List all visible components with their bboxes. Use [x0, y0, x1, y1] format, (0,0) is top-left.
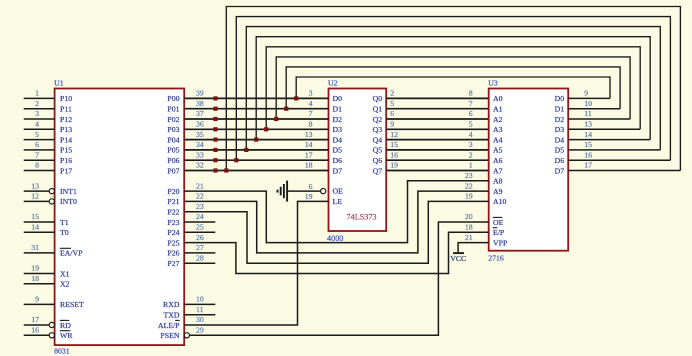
svg-text:P13: P13 [60, 125, 72, 134]
svg-text:35: 35 [196, 130, 204, 139]
svg-text:A8: A8 [493, 177, 503, 186]
svg-text:Q5: Q5 [373, 146, 383, 155]
svg-text:16: 16 [31, 326, 39, 335]
svg-text:8: 8 [309, 120, 313, 129]
svg-text:2716: 2716 [488, 253, 504, 262]
svg-text:16: 16 [390, 150, 398, 159]
svg-text:U3: U3 [488, 79, 498, 88]
svg-text:7: 7 [469, 99, 473, 108]
svg-text:29: 29 [196, 326, 204, 335]
svg-text:INT1: INT1 [60, 187, 77, 196]
svg-text:9: 9 [35, 295, 39, 304]
svg-text:2: 2 [390, 89, 394, 98]
svg-text:P02: P02 [167, 115, 179, 124]
svg-text:8031: 8031 [54, 347, 70, 356]
svg-text:Q2: Q2 [373, 115, 383, 124]
svg-text:20: 20 [465, 212, 473, 221]
svg-text:EA/VP: EA/VP [60, 249, 83, 258]
svg-text:P05: P05 [167, 146, 179, 155]
svg-text:39: 39 [196, 89, 204, 98]
svg-text:P03: P03 [167, 125, 179, 134]
svg-text:P25: P25 [167, 238, 179, 247]
svg-text:5: 5 [35, 130, 39, 139]
svg-text:OE: OE [333, 187, 344, 196]
svg-text:D5: D5 [333, 146, 343, 155]
svg-text:P15: P15 [60, 146, 72, 155]
svg-text:D6: D6 [555, 156, 565, 165]
svg-text:23: 23 [465, 171, 473, 180]
svg-text:18: 18 [305, 161, 313, 170]
svg-text:INT0: INT0 [60, 197, 77, 206]
svg-text:10: 10 [584, 99, 592, 108]
svg-text:P01: P01 [167, 105, 179, 114]
svg-text:A10: A10 [493, 197, 507, 206]
svg-text:A9: A9 [493, 187, 503, 196]
svg-text:17: 17 [31, 315, 39, 324]
svg-text:ALE/P: ALE/P [158, 321, 180, 330]
svg-text:3: 3 [309, 89, 313, 98]
svg-text:D4: D4 [333, 135, 343, 144]
svg-text:D3: D3 [555, 125, 565, 134]
svg-text:Q0: Q0 [373, 94, 383, 103]
svg-text:5: 5 [390, 99, 394, 108]
svg-text:37: 37 [196, 109, 204, 118]
svg-text:25: 25 [196, 223, 204, 232]
svg-text:3: 3 [469, 140, 473, 149]
svg-text:14: 14 [305, 140, 313, 149]
svg-text:11: 11 [584, 109, 592, 118]
svg-text:D0: D0 [333, 94, 343, 103]
svg-text:A7: A7 [493, 166, 503, 175]
svg-text:P10: P10 [60, 94, 72, 103]
svg-text:15: 15 [31, 212, 39, 221]
svg-text:P27: P27 [167, 259, 179, 268]
svg-text:16: 16 [584, 150, 592, 159]
svg-text:22: 22 [465, 181, 473, 190]
svg-text:A0: A0 [493, 94, 503, 103]
svg-text:P26: P26 [167, 249, 179, 258]
svg-text:22: 22 [196, 192, 204, 201]
svg-text:19: 19 [465, 192, 473, 201]
svg-text:D3: D3 [333, 125, 343, 134]
svg-text:A5: A5 [493, 146, 503, 155]
svg-text:14: 14 [31, 223, 39, 232]
svg-text:OE: OE [493, 218, 504, 227]
svg-text:12: 12 [390, 130, 398, 139]
svg-text:18: 18 [465, 223, 473, 232]
svg-text:P04: P04 [167, 135, 179, 144]
svg-text:11: 11 [196, 305, 204, 314]
svg-text:X1: X1 [60, 269, 70, 278]
svg-text:P16: P16 [60, 156, 72, 165]
svg-text:WR: WR [60, 331, 73, 340]
svg-text:19: 19 [390, 161, 398, 170]
svg-text:15: 15 [584, 140, 592, 149]
svg-text:7: 7 [35, 150, 39, 159]
svg-text:A4: A4 [493, 135, 503, 144]
svg-text:P24: P24 [167, 228, 179, 237]
svg-text:27: 27 [196, 243, 204, 252]
svg-text:P17: P17 [60, 166, 72, 175]
svg-text:P07: P07 [167, 166, 179, 175]
svg-text:30: 30 [196, 315, 204, 324]
svg-text:VPP: VPP [493, 238, 508, 247]
svg-text:D7: D7 [333, 166, 343, 175]
svg-text:T0: T0 [60, 228, 69, 237]
svg-text:Q3: Q3 [373, 125, 383, 134]
svg-text:P21: P21 [167, 197, 179, 206]
svg-text:Q7: Q7 [373, 166, 383, 175]
svg-text:26: 26 [196, 233, 204, 242]
svg-text:Q4: Q4 [373, 135, 383, 144]
svg-text:31: 31 [31, 243, 39, 252]
svg-text:PSEN: PSEN [160, 331, 179, 340]
svg-text:D5: D5 [555, 146, 565, 155]
svg-text:18: 18 [31, 274, 39, 283]
svg-text:D6: D6 [333, 156, 343, 165]
svg-text:P11: P11 [60, 105, 72, 114]
svg-text:D0: D0 [555, 94, 565, 103]
svg-text:6: 6 [390, 109, 394, 118]
svg-text:6: 6 [309, 182, 313, 191]
svg-text:2: 2 [35, 99, 39, 108]
svg-text:D4: D4 [555, 135, 565, 144]
svg-text:RD: RD [60, 321, 71, 330]
svg-text:P23: P23 [167, 218, 179, 227]
svg-text:A3: A3 [493, 125, 503, 134]
svg-text:32: 32 [196, 161, 204, 170]
svg-text:23: 23 [196, 202, 204, 211]
svg-text:17: 17 [305, 150, 313, 159]
svg-text:P20: P20 [167, 187, 179, 196]
svg-text:3: 3 [35, 109, 39, 118]
svg-text:4: 4 [35, 120, 39, 129]
svg-text:D1: D1 [555, 105, 565, 114]
svg-text:4: 4 [309, 99, 313, 108]
svg-text:17: 17 [584, 161, 592, 170]
svg-text:1: 1 [469, 161, 473, 170]
svg-text:21: 21 [465, 233, 473, 242]
svg-text:13: 13 [584, 120, 592, 129]
svg-text:14: 14 [584, 130, 592, 139]
svg-text:1: 1 [35, 89, 39, 98]
svg-text:Q6: Q6 [373, 156, 383, 165]
svg-text:P22: P22 [167, 208, 179, 217]
svg-text:D2: D2 [333, 115, 343, 124]
svg-text:D2: D2 [555, 115, 565, 124]
svg-text:4000: 4000 [327, 234, 343, 243]
svg-text:P06: P06 [167, 156, 179, 165]
svg-text:X2: X2 [60, 280, 70, 289]
svg-text:13: 13 [305, 130, 313, 139]
svg-text:74LS373: 74LS373 [347, 212, 377, 221]
svg-text:A2: A2 [493, 115, 503, 124]
svg-text:19: 19 [31, 264, 39, 273]
svg-text:A6: A6 [493, 156, 503, 165]
svg-text:6: 6 [35, 140, 39, 149]
svg-text:8: 8 [469, 89, 473, 98]
svg-text:21: 21 [196, 181, 204, 190]
svg-text:U1: U1 [54, 79, 64, 88]
svg-text:E/P: E/P [493, 228, 505, 237]
svg-text:34: 34 [196, 140, 204, 149]
svg-text:38: 38 [196, 99, 204, 108]
svg-text:U2: U2 [328, 79, 338, 88]
svg-text:LE: LE [333, 197, 343, 206]
svg-text:D1: D1 [333, 105, 343, 114]
svg-text:5: 5 [469, 120, 473, 129]
svg-text:RESET: RESET [60, 300, 84, 309]
svg-text:13: 13 [31, 181, 39, 190]
svg-text:28: 28 [196, 253, 204, 262]
svg-text:4: 4 [469, 130, 473, 139]
svg-text:A1: A1 [493, 105, 503, 114]
svg-text:9: 9 [390, 120, 394, 129]
svg-text:12: 12 [31, 192, 39, 201]
svg-text:TXD: TXD [163, 311, 179, 320]
svg-text:33: 33 [196, 150, 204, 159]
svg-text:19: 19 [305, 192, 313, 201]
svg-text:P14: P14 [60, 135, 72, 144]
svg-text:T1: T1 [60, 218, 69, 227]
svg-text:P00: P00 [167, 94, 179, 103]
svg-text:9: 9 [584, 89, 588, 98]
svg-text:VCC: VCC [450, 254, 466, 263]
svg-text:36: 36 [196, 120, 204, 129]
svg-text:2: 2 [469, 150, 473, 159]
svg-text:10: 10 [196, 295, 204, 304]
svg-text:8: 8 [35, 161, 39, 170]
svg-text:6: 6 [469, 109, 473, 118]
svg-text:15: 15 [390, 140, 398, 149]
svg-text:D7: D7 [555, 166, 565, 175]
svg-text:7: 7 [309, 109, 313, 118]
svg-text:P12: P12 [60, 115, 72, 124]
svg-text:RXD: RXD [163, 300, 180, 309]
svg-text:Q1: Q1 [373, 105, 383, 114]
svg-text:24: 24 [196, 212, 204, 221]
